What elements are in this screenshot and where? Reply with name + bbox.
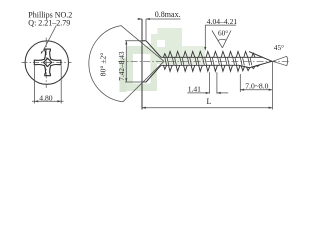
angle 45 pie top leg (273, 56, 287, 61)
svg-text:7.0~8.0: 7.0~8.0 (245, 82, 268, 91)
watermark square frame (127, 46, 158, 91)
dim 1.41 line right (217, 92, 228, 94)
angle 80 extension line top (121, 26, 164, 62)
dim 0.8max line right part (146, 18, 181, 20)
tip taper bottom (239, 61, 273, 67)
svg-text:4.04–4.21: 4.04–4.21 (207, 17, 238, 26)
head cone top (146, 41, 161, 58)
dim 4.80 line (32, 100, 64, 102)
svg-text:80° ±2°: 80° ±2° (98, 53, 107, 77)
svg-text:L: L (207, 97, 212, 106)
head rim bottom edge (142, 81, 146, 83)
head rim top edge (142, 40, 146, 42)
svg-text:1.41: 1.41 (188, 84, 201, 93)
head face line with extensions (141, 19, 143, 110)
angle 60 arc (218, 39, 226, 40)
dim L arrows (142, 107, 272, 109)
side view main centerline (118, 60, 290, 62)
angle 60 V right leg (222, 31, 231, 48)
dim 7.0-8.0 arrows (240, 89, 272, 91)
tip taper top (249, 52, 272, 62)
angle 80 arc (89, 26, 123, 102)
angle 80 extension line bottom (123, 61, 164, 102)
dim 7.0-8.0 extension left (239, 74, 241, 92)
watermark bar left (120, 58, 127, 92)
top view horizontal centerline (22, 62, 72, 64)
dim 0.8max arrows (138, 18, 150, 20)
dim 4.04-4.21 leader vertical (204, 25, 206, 48)
dim 7.42-8.43 extension top (125, 40, 147, 42)
svg-text:4.80: 4.80 (39, 93, 52, 102)
dim 1.41 line left (187, 92, 209, 94)
dim L line (142, 107, 272, 109)
leader line phillips (43, 26, 57, 52)
dim 4.80 arrows (34, 100, 61, 102)
watermark notch white (157, 40, 165, 47)
head cone bottom (146, 65, 161, 82)
thread flank lines (165, 57, 252, 65)
dim 7.42-8.43 extension bottom (125, 81, 147, 83)
angle 45 pie bottom leg (273, 61, 287, 65)
dim 0.8max line left part (137, 18, 142, 20)
watermark block upper right (158, 28, 183, 64)
dim 1.41 arrows (206, 92, 221, 94)
phillips recess cross (34, 49, 61, 76)
angle 45 pie arc (286, 56, 289, 65)
dim 4.80 extension lines (34, 66, 61, 104)
dim 0.8max extension right (145, 19, 147, 40)
svg-text:0.8max.: 0.8max. (155, 10, 181, 19)
thread crests bottom (163, 65, 259, 71)
dim 4.04-4.21 arrowhead (204, 47, 206, 51)
thread core bottom line (161, 64, 239, 66)
svg-text:60°: 60° (218, 28, 228, 37)
angle 60 V left leg (212, 31, 223, 48)
thread crests top (163, 51, 255, 57)
svg-text:7.42–8.43: 7.42–8.43 (117, 51, 126, 81)
dim 7.42-8.43 line (125, 41, 127, 82)
dim 7.0-8.0 line (240, 89, 272, 91)
dim 1.41 extension lines (210, 72, 217, 93)
leader arrowhead (41, 51, 43, 54)
dim 7.42-8.43 arrows (125, 41, 127, 82)
top view head circle (25, 41, 68, 84)
svg-text:Q: 2.21–2.79: Q: 2.21–2.79 (28, 18, 70, 27)
svg-text:45°: 45° (274, 43, 284, 52)
top view vertical centerline (45, 38, 47, 89)
thread core top line (161, 56, 263, 58)
dim 4.04-4.21 leader underline (205, 24, 236, 26)
watermark band behind threads (182, 46, 205, 64)
tip extension line down (271, 61, 273, 109)
